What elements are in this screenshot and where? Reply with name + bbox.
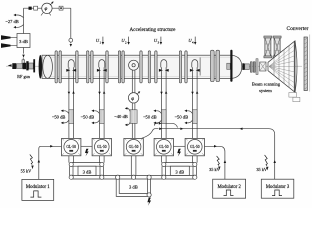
svg-text:Modulator 1: Modulator 1 (26, 185, 50, 190)
svg-text:3 dB: 3 dB (19, 39, 28, 44)
svg-text:−27 dB: −27 dB (5, 19, 18, 24)
svg-text:−50 dB: −50 dB (143, 115, 157, 120)
svg-text:3 dB: 3 dB (83, 170, 92, 175)
svg-text:φ: φ (131, 97, 134, 102)
svg-text:55 kV: 55 kV (21, 169, 33, 174)
svg-text:−50 dB: −50 dB (80, 115, 94, 120)
svg-text:Accelerating structure: Accelerating structure (130, 27, 177, 33)
svg-text:Beam scanning: Beam scanning (252, 82, 281, 87)
svg-text:35 kV: 35 kV (256, 167, 268, 172)
svg-text:GL-50: GL-50 (159, 145, 169, 149)
svg-text:GL-50: GL-50 (66, 145, 76, 149)
svg-text:Modulator 3: Modulator 3 (266, 185, 290, 190)
svg-text:3 dB: 3 dB (129, 184, 138, 189)
svg-text:Modulator 2: Modulator 2 (217, 185, 241, 190)
svg-text:−50 dB: −50 dB (52, 115, 66, 120)
svg-text:RF gun: RF gun (17, 74, 31, 79)
svg-text:−40 dB: −40 dB (114, 114, 128, 119)
svg-text:3 dB: 3 dB (175, 170, 184, 175)
svg-text:−50 dB: −50 dB (174, 115, 188, 120)
svg-text:φ: φ (45, 7, 48, 12)
svg-text:GL-50: GL-50 (190, 145, 200, 149)
svg-text:system: system (259, 88, 272, 93)
svg-text:Converter: Converter (287, 26, 309, 32)
svg-text:GL-50: GL-50 (129, 145, 139, 149)
svg-text:GL-50: GL-50 (97, 145, 107, 149)
